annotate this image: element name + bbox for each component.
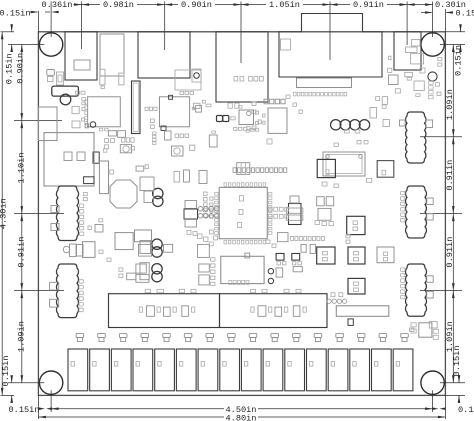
K3 contacts [251, 306, 306, 317]
svg-text:0.90in: 0.90in [16, 53, 26, 84]
svg-text:0.91in: 0.91in [16, 237, 26, 268]
extension line right 1.09 tick [420, 136, 462, 138]
pads under J3 [228, 103, 242, 108]
J13 side pads [401, 268, 434, 299]
crystal Y1 [110, 180, 137, 208]
relay block K3 [220, 294, 328, 328]
pads cluster F [110, 166, 144, 174]
U1 pin pads top [224, 183, 266, 187]
extension line left 0.90 tick [14, 120, 62, 122]
dimension 0.15in top-left [0, 9, 59, 19]
component C2 [268, 108, 287, 133]
dimension 4.80in [38, 413, 445, 421]
module U8 [221, 253, 264, 284]
mounting hole top-right [421, 33, 444, 56]
rect U19 [139, 244, 152, 256]
dark pair P5 [217, 116, 236, 122]
capacitor C1 [109, 131, 126, 138]
connector row above U1 [233, 168, 287, 173]
square U13 [377, 247, 394, 263]
pad row under J1 [76, 86, 105, 105]
pads column P6 [211, 258, 215, 286]
8-pad P1 [153, 188, 163, 206]
pads above K3 [251, 289, 302, 292]
pad row I [291, 237, 325, 241]
extension line hole BR bottom [432, 390, 434, 412]
pads near J4 [286, 95, 302, 113]
svg-text:1.05in: 1.05in [269, 0, 300, 10]
component with circle U5b [172, 146, 184, 156]
square P8 [198, 244, 210, 257]
cluster right of J8 [88, 219, 103, 232]
dimension 1.10in left [16, 121, 26, 214]
dimension 0.91in right lower [445, 214, 455, 291]
component J10 [237, 163, 250, 175]
resistor R10 [47, 70, 55, 76]
hole TR crosshair [440, 44, 465, 46]
extension line board bottom-right corner [445, 394, 465, 396]
header J9 left [56, 264, 78, 318]
header J12 right [405, 186, 426, 238]
U1 pin pads bottom [224, 240, 266, 244]
U1 center marks [238, 196, 244, 228]
IC U2 [85, 97, 121, 131]
cap CE3 [348, 278, 365, 294]
rects pair P7 [199, 264, 210, 285]
mounting hole bottom-right [421, 371, 444, 394]
extension line board bottom-left corner [1, 394, 15, 396]
connector J2 ethernet [138, 32, 190, 78]
svg-text:0.91in: 0.91in [353, 0, 384, 10]
svg-text:4.80in: 4.80in [226, 413, 257, 421]
pads under U2 [105, 139, 115, 149]
mounting hole top-left [39, 33, 62, 56]
svg-text:0.98in: 0.98in [103, 0, 134, 10]
dimension 0.15in right-top [454, 24, 464, 76]
connector J5 [394, 32, 421, 70]
tall component U4 [132, 81, 141, 134]
rect U18 [135, 230, 152, 242]
svg-text:0.90in: 0.90in [181, 0, 212, 10]
square U9b [144, 191, 154, 203]
component U10 [411, 54, 424, 64]
dimension 0.15in left-top [5, 24, 15, 84]
extension line right 0.91 tick [420, 213, 462, 215]
pad rows G [268, 207, 288, 218]
extension line left 0.91 tick [14, 290, 64, 292]
IC U22 [239, 110, 254, 125]
cap CE2 [348, 247, 365, 264]
dark square X1 [317, 159, 335, 177]
pads above blocks right [346, 235, 414, 332]
component with circle U5 [120, 145, 131, 153]
transistor Q2 stack [184, 201, 198, 228]
wide bar J14 [336, 306, 389, 317]
IC U3 [160, 95, 201, 150]
resistor pair R21 [317, 197, 334, 206]
svg-text:0.15in: 0.15in [0, 9, 30, 19]
small rects J [301, 244, 315, 253]
capacitor C3 [388, 56, 398, 84]
pads around U22 [256, 111, 266, 125]
hole BL crosshair [8, 382, 44, 384]
J8 side pads [51, 204, 84, 236]
pads cluster Q top [153, 131, 189, 145]
IC U1 main [219, 187, 267, 238]
header J11 right [406, 112, 426, 163]
dark resistor R14 [93, 152, 99, 163]
pad row under J6 [293, 92, 346, 96]
extension line J5 pin [406, 2, 408, 46]
extension line board top-left corner [1, 31, 15, 33]
hole TL crosshair [8, 44, 44, 46]
svg-text:0.15in: 0.15in [1, 356, 11, 387]
parts under J1 [72, 107, 88, 128]
connector J1 power jack [65, 32, 97, 80]
clamp component Q3 [287, 196, 303, 225]
component R20 [209, 135, 217, 147]
long connector J6 [297, 78, 352, 88]
dimension 0.90in left [16, 45, 26, 121]
cap CE1 [317, 247, 335, 264]
extension line left 1.10 tick [14, 213, 64, 215]
component Q1 [57, 72, 64, 85]
terminal pads row [76, 333, 408, 341]
component row D2 [63, 242, 95, 258]
pads cluster N [234, 126, 259, 132]
pads cluster D [370, 72, 424, 126]
U1 pin pads left [215, 193, 219, 235]
connector J3 ethernet [216, 32, 268, 102]
extension line board right edge top [444, 9, 446, 32]
shield module U11 [323, 152, 365, 176]
square U16 [278, 233, 289, 242]
extension line hole TL [50, 2, 52, 38]
square U21 [411, 322, 439, 340]
extension line board left edge top [37, 11, 39, 32]
dimension 0.15in top-right [421, 9, 474, 19]
extension line board right edge bottom [444, 395, 446, 419]
LED D1 [52, 86, 79, 105]
extension line J3 pin [240, 2, 242, 64]
pads cluster M [99, 250, 149, 282]
header J8 left [56, 186, 78, 241]
pads under X1 [322, 178, 372, 187]
svg-text:0.15in: 0.15in [452, 346, 462, 377]
edge connector J7 [38, 107, 57, 141]
extension line board left edge bottom [37, 395, 39, 419]
terminal block row X2 [68, 349, 413, 391]
dimension 0.98in [82, 0, 165, 10]
hole BR crosshair [440, 382, 465, 384]
dimension 4.50in [51, 405, 433, 415]
capacitor C4 round [428, 72, 437, 81]
svg-text:4.30in: 4.30in [0, 198, 9, 229]
pads under U12 [315, 221, 334, 226]
extension line right 0.91b tick [420, 290, 462, 292]
svg-text:0.36in: 0.36in [42, 0, 73, 10]
rect by P2 [140, 241, 173, 254]
pads cluster C [252, 102, 261, 129]
dimension 1.09in right [445, 45, 455, 137]
board outline [38, 32, 445, 396]
extension line J1 pin [81, 2, 83, 50]
pads left of U1 [204, 192, 214, 218]
J9 side pads [50, 280, 84, 312]
resistor R11 [48, 77, 54, 82]
svg-text:0.15in: 0.15in [5, 53, 15, 84]
svg-text:1.09in: 1.09in [445, 89, 455, 120]
svg-text:0.15in: 0.15in [458, 405, 474, 415]
header JP1 [331, 120, 370, 133]
square U14 [377, 161, 394, 178]
svg-text:0.15in: 0.15in [456, 9, 474, 19]
svg-text:0.15in: 0.15in [9, 405, 40, 415]
svg-text:0.91in: 0.91in [445, 237, 455, 268]
component K1 relay [100, 34, 124, 85]
J11 side pads [400, 120, 433, 128]
small parts row [122, 138, 135, 142]
pad row B [264, 99, 285, 104]
square U9a [140, 177, 154, 191]
small rect under J14 [348, 319, 353, 326]
card holder U6 [44, 133, 94, 186]
J12 side pads [401, 191, 434, 222]
vertical bars pair [174, 170, 190, 182]
pads row above block [145, 289, 196, 292]
svg-text:1.10in: 1.10in [16, 153, 26, 184]
8-pad P2 [152, 239, 162, 257]
square U12 [318, 208, 331, 220]
header J13 right [405, 264, 426, 316]
edge pads right top [438, 58, 442, 67]
pads cluster O [192, 100, 215, 133]
dimension 4.30in [0, 32, 9, 396]
square U17 [115, 233, 133, 250]
dimension 0.90in top [165, 0, 241, 10]
dimension 0.15in left-bottom [1, 356, 13, 403]
pad row under J2 [180, 92, 194, 95]
pads cluster E [420, 68, 441, 99]
dimension 0.30in [400, 0, 466, 10]
pad row R12 [145, 107, 157, 110]
extension line J2 pin [164, 2, 166, 51]
rect P9 [199, 171, 207, 184]
dimension 0.15in bottom-left [9, 405, 53, 415]
connector J4 header [279, 14, 382, 78]
pads R13 [150, 119, 154, 128]
svg-text:1.09in: 1.09in [16, 321, 26, 352]
pads cluster L [187, 230, 276, 247]
extension line J4 pin [329, 2, 331, 61]
relay block K2 [109, 294, 220, 328]
pads cluster H [267, 139, 368, 146]
dark rect U15 [347, 216, 365, 234]
dimension 0.36in [42, 0, 82, 10]
dimension 1.05in [241, 0, 330, 10]
pads near J14 [327, 293, 347, 304]
dimension 0.91in left [16, 214, 26, 291]
pads cluster A [103, 147, 148, 171]
pads above J8 [83, 193, 87, 201]
extension line hole BL bottom [50, 390, 52, 412]
dimension 0.15in right-bottom [452, 346, 462, 403]
dimension 0.91in right [445, 137, 455, 214]
rect by P3 [140, 263, 149, 280]
K2 contacts [139, 306, 195, 317]
box on J2 [175, 69, 201, 90]
U1 pin pads right [268, 193, 272, 235]
extension line board top-right corner [445, 31, 465, 33]
mounting hole bottom-left [39, 371, 62, 394]
dark sq pair [276, 254, 301, 265]
dimension 1.09in right lower [445, 291, 455, 383]
svg-text:0.15in: 0.15in [454, 45, 464, 76]
8-pad P3 [152, 264, 162, 282]
pads in J3 [234, 77, 263, 82]
tall component U7 [99, 161, 108, 194]
8-pad P4 [268, 269, 273, 284]
svg-text:0.91in: 0.91in [445, 160, 455, 191]
rect K [276, 267, 302, 278]
round pad grid [198, 207, 219, 219]
dimension 1.09in left [16, 291, 26, 383]
extension line hole TR [432, 2, 434, 38]
dimension 0.91in top [330, 0, 407, 10]
dimension 0.15in bottom-right [432, 405, 474, 415]
